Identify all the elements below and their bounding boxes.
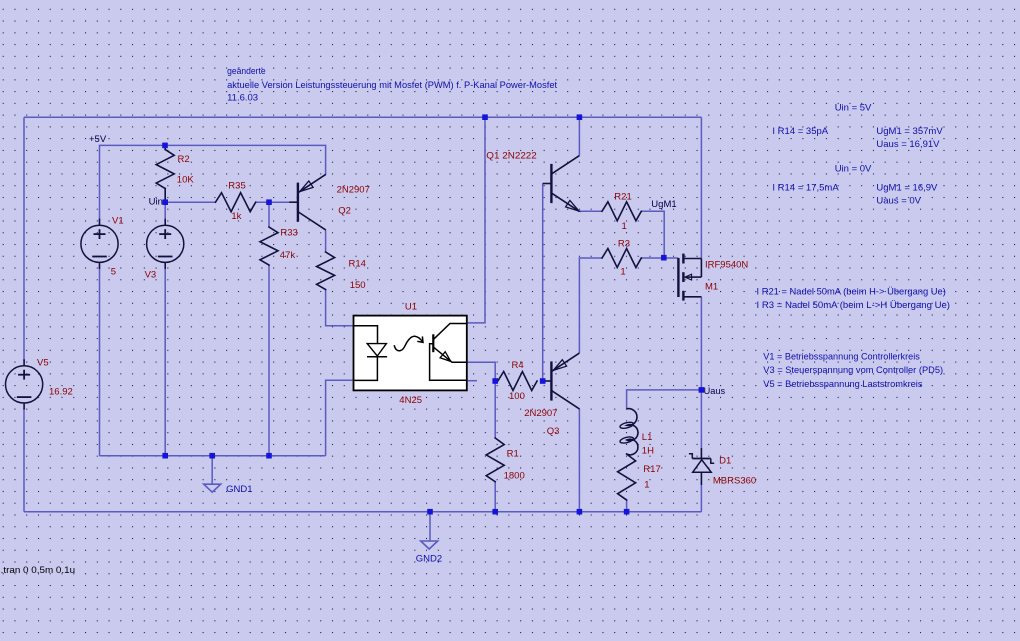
svg-text:16.92: 16.92 — [49, 387, 73, 398]
junction node 12 (269,456) — [266, 453, 272, 459]
wire U1 collector riser — [467, 117, 485, 323]
svg-text:Q2: Q2 — [338, 206, 351, 217]
wire Q3 emitter riser to R3 — [579, 258, 602, 353]
wire R17 to bottom rail — [626, 500, 628, 512]
transistor Q3 — [543, 353, 580, 409]
inductor L1 — [619, 409, 638, 455]
wire Uin node to R35 — [165, 201, 215, 203]
svg-text:Uin = 0V: Uin = 0V — [835, 164, 872, 175]
svg-text:MBRS360: MBRS360 — [713, 476, 756, 487]
svg-text:1: 1 — [620, 267, 625, 278]
diode D1 — [689, 448, 714, 485]
junction node 11 (212,456) — [209, 453, 215, 459]
wire Q2 collector to R14 — [325, 231, 327, 253]
svg-text:.tran 0 0.5m 0.1u: .tran 0 0.5m 0.1u — [1, 565, 76, 576]
svg-text:47k: 47k — [280, 250, 296, 261]
wire R4 node to R1 — [494, 381, 496, 438]
resistor R3 — [602, 249, 641, 268]
transistor Q2 — [289, 174, 326, 230]
wire Uaus node to D1 — [700, 390, 702, 448]
junction node 5 (269,202) — [266, 199, 272, 205]
wire inner ground rail — [100, 455, 326, 457]
wire left border down to V5 — [23, 117, 25, 361]
resistor R2 — [156, 145, 174, 202]
voltage source V1 — [81, 219, 118, 269]
svg-text:I R3 = Nadel 50mA (beim L->H: I R3 = Nadel 50mA (beim L->H Übergang Ue… — [757, 300, 951, 311]
svg-text:UgM1: UgM1 — [651, 199, 676, 210]
svg-text:5: 5 — [111, 267, 116, 278]
svg-text:D1: D1 — [719, 456, 731, 467]
wire Q1 base riser to Q3 base node — [542, 184, 544, 382]
transistor M1 (P-MOSFET) — [678, 254, 701, 301]
svg-text:150: 150 — [350, 280, 366, 291]
svg-text:V3: V3 — [145, 270, 157, 281]
svg-text:V3 = Steuerspannung vom Contro: V3 = Steuerspannung vom Controller (PD5) — [763, 365, 943, 376]
svg-text:1800: 1800 — [504, 471, 525, 482]
svg-text:R4: R4 — [512, 360, 524, 371]
resistor R14 — [317, 252, 335, 290]
svg-text:1: 1 — [622, 221, 627, 232]
junction node 10 (165,456) — [162, 453, 168, 459]
wire bottom rail (GND net) — [24, 511, 701, 513]
wire U1 base stub — [467, 380, 477, 382]
junction node 3 (165,145) — [162, 143, 168, 149]
wire Uaus node to L1 — [627, 390, 702, 409]
wire R14 to U1 LED anode — [326, 290, 354, 326]
wire R21 to UgM1 node — [641, 211, 664, 258]
svg-text:GND1: GND1 — [226, 484, 252, 495]
svg-text:U1: U1 — [405, 302, 417, 313]
resistor R1 — [486, 438, 504, 482]
wire M1 drain to Uaus node — [700, 297, 702, 390]
svg-text:1k: 1k — [231, 211, 241, 222]
wire Q1 emitter to R21 — [579, 210, 602, 212]
wire D1 anode to bottom rail — [700, 485, 702, 512]
svg-text:UgM1 = 16,9V: UgM1 = 16,9V — [876, 183, 938, 194]
wire V1 bottom to inner rail — [99, 267, 101, 455]
voltage source V5 — [6, 359, 43, 409]
wire R33 bottom to inner rail — [268, 265, 270, 456]
resistor R4 — [498, 372, 537, 391]
wire U1 LED cathode to inner rail — [326, 380, 354, 455]
svg-text:GND2: GND2 — [416, 554, 442, 565]
ground GND1 — [204, 484, 221, 492]
resistor R33 — [260, 227, 278, 265]
svg-text:1H: 1H — [642, 446, 654, 457]
wire M1 source riser — [700, 117, 702, 258]
svg-text:V5 = Betriebsspannung Laststro: V5 = Betriebsspannung Laststromkreis — [763, 379, 922, 390]
junction node 16 (627,512) — [624, 509, 630, 515]
svg-text:100: 100 — [509, 391, 525, 402]
svg-text:11.6.03: 11.6.03 — [227, 93, 258, 104]
svg-text:1: 1 — [644, 480, 649, 491]
svg-text:V1: V1 — [112, 216, 124, 227]
wire R3 right lead to gate node — [641, 257, 678, 259]
wire V3 bottom to inner rail — [164, 267, 166, 455]
svg-text:+5V: +5V — [89, 134, 107, 145]
svg-text:Uaus: Uaus — [704, 386, 726, 397]
junction node 14 (495,512) — [492, 509, 498, 515]
transistor Q1 — [543, 156, 580, 212]
svg-text:I R21 = Nadel 50mA (beim H-> Ü: I R21 = Nadel 50mA (beim H-> Übergang Ue… — [757, 287, 946, 298]
wire GND1 stub — [211, 456, 213, 485]
svg-text:V1 = Betriebsspannung Controll: V1 = Betriebsspannung Controllerkreis — [763, 352, 920, 363]
wire R35 to Q2 base node — [256, 201, 290, 203]
svg-text:R35: R35 — [228, 181, 245, 192]
svg-text:Q3: Q3 — [547, 426, 560, 437]
svg-text:2N2907: 2N2907 — [524, 408, 557, 419]
svg-text:Q1 2N2222: Q1 2N2222 — [486, 151, 537, 162]
svg-text:V5: V5 — [37, 358, 49, 369]
resistor R35 — [216, 193, 256, 212]
svg-text:R14: R14 — [349, 259, 366, 270]
junction node 15 (579,512) — [577, 509, 583, 515]
svg-text:Uaus = 16,91V: Uaus = 16,91V — [876, 139, 940, 150]
junction node 6 (495,381) — [492, 378, 498, 384]
ground GND2 — [421, 541, 438, 549]
svg-text:IRF9540N: IRF9540N — [705, 260, 748, 271]
svg-text:R1: R1 — [507, 449, 519, 460]
wire GND2 stub — [429, 512, 431, 541]
svg-text:2N2907: 2N2907 — [337, 185, 370, 196]
svg-text:R2: R2 — [178, 154, 190, 165]
svg-text:L1: L1 — [642, 432, 653, 443]
svg-text:I R14 = 35pA: I R14 = 35pA — [772, 126, 828, 137]
wire Q3 collector riser — [578, 409, 580, 512]
svg-text:R21: R21 — [614, 192, 631, 203]
svg-text:10K: 10K — [177, 175, 195, 186]
junction node 7 (543,381) — [540, 378, 546, 384]
junction node 9 (701,390) — [699, 387, 705, 393]
junction node 2 (579,117) — [577, 114, 583, 120]
wire top rail (V5+ net) — [24, 116, 701, 118]
svg-text:geänderte: geänderte — [227, 66, 266, 77]
wire V5 bottom to corner — [23, 408, 25, 512]
svg-text:I R14 = 17,5mA: I R14 = 17,5mA — [772, 183, 839, 194]
svg-text:4N25: 4N25 — [399, 395, 422, 406]
junction node 4 (165,202) — [162, 199, 168, 205]
svg-text:R33: R33 — [280, 228, 297, 239]
wire Q1 collector riser — [578, 117, 580, 155]
wire R33 top lead — [268, 202, 270, 227]
wire R1 to bottom rail — [494, 482, 496, 512]
resistor R17 — [618, 454, 636, 500]
voltage source V3 — [147, 219, 184, 269]
wire U1 emitter to R4/R1 node — [467, 362, 495, 381]
resistor R21 — [602, 202, 641, 221]
wire V3 top to Uin node — [164, 202, 166, 220]
svg-text:aktuelle Version Leistungssteu: aktuelle Version Leistungssteuerung mit … — [227, 80, 557, 91]
svg-text:R17: R17 — [643, 464, 660, 475]
op-amp U1 optocoupler 4N25 — [354, 316, 467, 391]
wire +5V rail — [100, 145, 326, 220]
junction node 1 (485,117) — [482, 114, 488, 120]
svg-text:UgM1 = 357mV: UgM1 = 357mV — [876, 126, 943, 137]
svg-text:Uin: Uin — [149, 196, 163, 207]
svg-text:Uin = 5V: Uin = 5V — [835, 103, 872, 114]
svg-text:R3: R3 — [618, 239, 630, 250]
svg-text:M1: M1 — [705, 282, 718, 293]
svg-text:Uaus = 0V: Uaus = 0V — [876, 196, 921, 207]
junction node 8 (664,258) — [661, 255, 667, 261]
junction node 13 (430,512) — [427, 509, 433, 515]
